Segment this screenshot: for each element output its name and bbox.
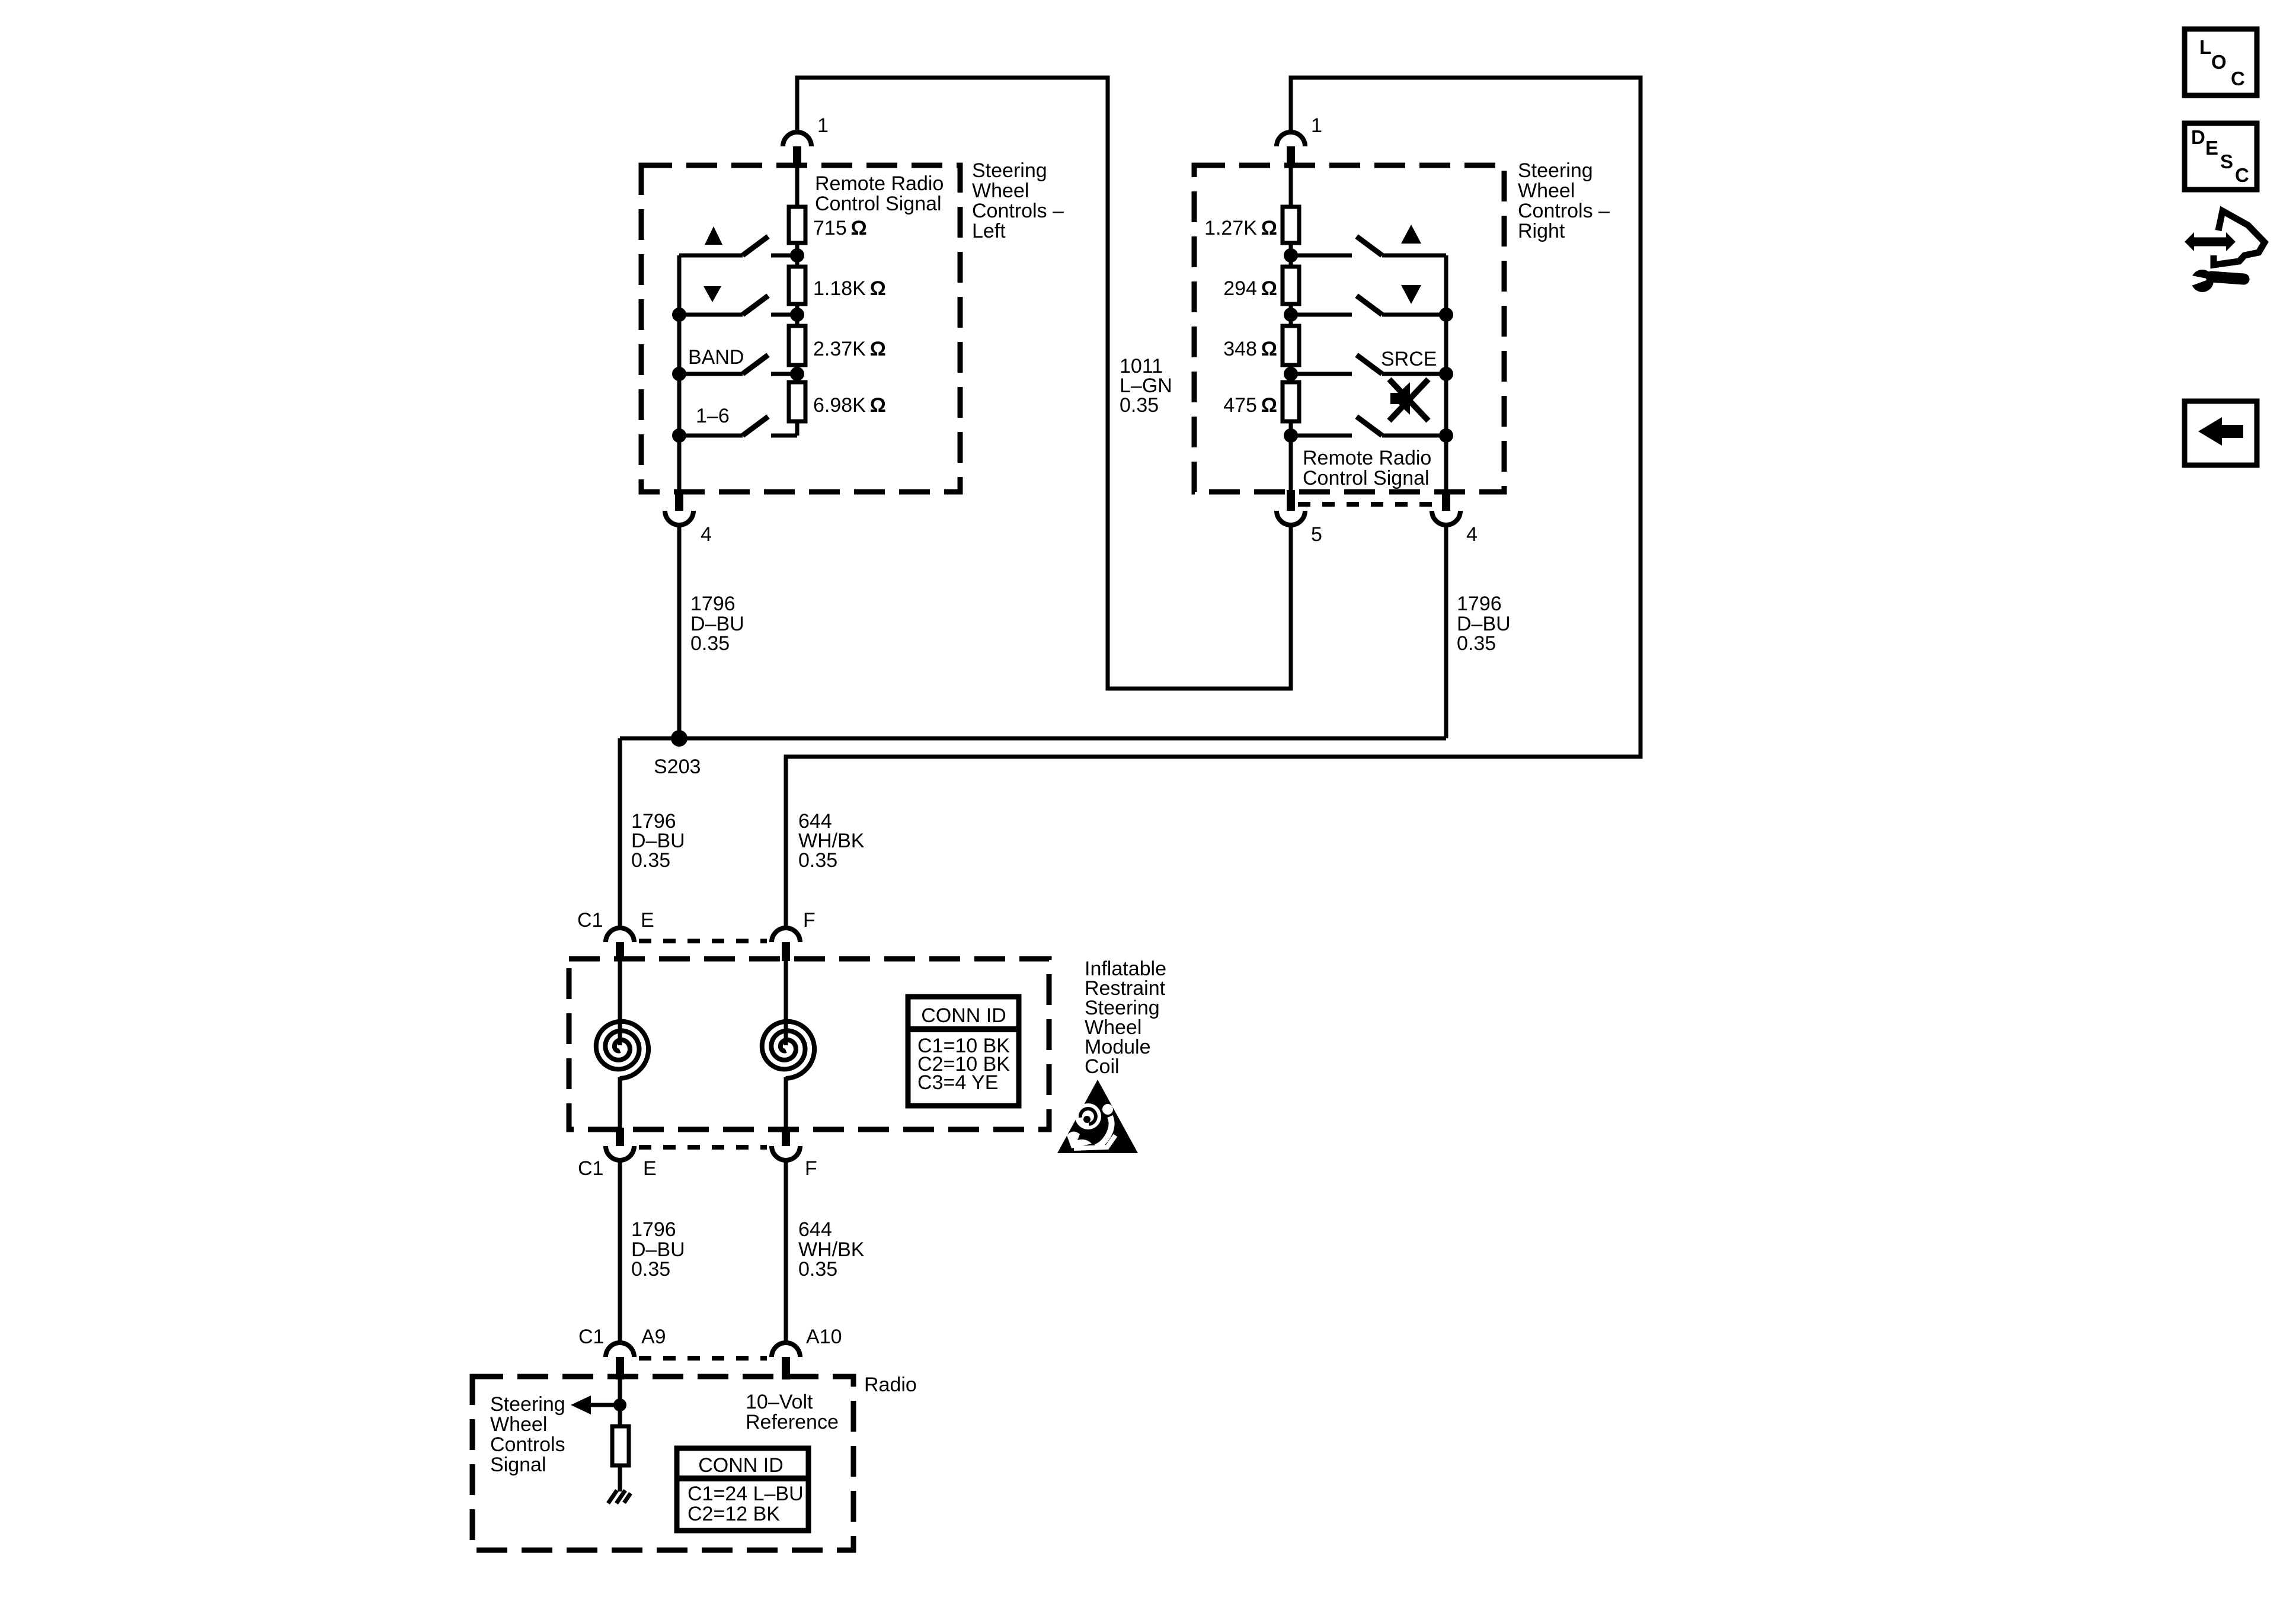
resistor 348 ohm [1283,326,1299,365]
svg-text:S203: S203 [654,756,701,778]
node: chain junction row2 [1284,308,1298,322]
coil spiral (right clockspring) [762,1022,814,1078]
connector pin 4 (right box bottom) [1442,490,1450,511]
switch label: mute speaker with X [1390,382,1410,415]
node: bus row2 [1439,308,1453,322]
label wire 644 WH/BK 0.35 (above coil F) [798,810,865,872]
svg-text:O: O [2211,51,2227,73]
svg-text:L: L [2199,36,2211,58]
icon: DESC button [2185,123,2257,190]
connector pin 1 (left box) [783,132,811,146]
wire: out of right coil [784,1077,788,1128]
node: bus row2 [672,308,686,322]
svg-text:1.27K Ω: 1.27K Ω [1204,217,1277,239]
svg-text:Reference: Reference [746,1411,839,1433]
label: 10-Volt Reference [746,1391,839,1433]
svg-text:715 Ω: 715 Ω [813,217,867,239]
wire [795,304,800,326]
wire: pin1 stub to resistor chain [1289,168,1293,207]
wire: out of left coil [618,1077,622,1128]
wire: left pin1 up, top rail, down at x1869, lower rail to right pin5 drop [797,78,1291,689]
node: bus row4 [672,428,686,443]
switch SW4 1-6 [679,417,797,436]
connector C1 pin F (coil top) [772,928,800,942]
wire: pin1 stub to resistor chain [795,168,800,207]
svg-text:Steering: Steering [1518,159,1593,182]
connector pin 1 (right box) [1277,132,1305,146]
node: bus row4 [1439,428,1453,443]
switch label: up arrow [1401,225,1421,244]
svg-text:CONN ID: CONN ID [698,1454,784,1477]
switch label: up arrow [705,226,722,245]
svg-text:475 Ω: 475 Ω [1223,394,1277,417]
resistor 715 ohm [789,207,805,243]
svg-text:1796: 1796 [631,1218,676,1241]
connector C1 pin E (coil top) [606,928,634,942]
connector C1 pin F (coil bottom) [782,1128,790,1146]
svg-text:Controls: Controls [490,1433,565,1456]
svg-text:Controls –: Controls – [1518,200,1610,222]
wire: signal arrow line [591,1403,620,1407]
node: junction at A9 lead [613,1398,626,1411]
svg-text:644: 644 [798,1218,832,1241]
svg-text:1: 1 [1311,114,1322,137]
CONN ID table (radio) [677,1448,808,1531]
node: chain junction row4 [1284,428,1298,443]
svg-text:C1: C1 [577,909,603,932]
component box: coil module (dashed) [569,959,1049,1129]
svg-text:Left: Left [972,220,1006,242]
wire: chain continues to pin5 [1289,436,1293,490]
connector pin 4 (left box bottom) [675,490,683,511]
connector pin 5 (right box bottom) [1287,490,1295,511]
wire [795,365,800,382]
resistor 2.37K ohm [789,326,805,365]
svg-text:C1: C1 [578,1157,603,1180]
node: chain junction row1 [1284,248,1298,263]
wire: chain bottom elbow [1289,421,1293,436]
svg-text:A10: A10 [806,1326,842,1348]
svg-text:294 Ω: 294 Ω [1223,277,1277,300]
wire: right pin4 down to splice rail [1444,525,1448,738]
wire: S203 splice rail [620,737,1446,741]
switch SW4 mute [1291,417,1446,436]
node: chain junction row2 [790,308,804,322]
svg-text:SRCE: SRCE [1381,348,1437,370]
svg-text:Wheel: Wheel [490,1413,547,1436]
wire: dotted tie A9-A10 [639,1356,767,1361]
resistor 475 ohm [1283,382,1299,421]
node: bus row3 [1439,367,1453,381]
node: chain junction row1 [790,248,804,263]
wire: switch bus [677,255,682,490]
svg-text:S: S [2220,151,2233,172]
svg-text:1.18K Ω: 1.18K Ω [813,277,886,300]
ground (chassis) [608,1490,631,1503]
svg-text:Control Signal: Control Signal [1303,467,1430,489]
svg-text:4: 4 [701,523,712,546]
switch SW1 up [1291,236,1446,255]
svg-text:F: F [803,909,816,932]
svg-text:Radio: Radio [864,1374,917,1396]
node: bus row3 [672,367,686,381]
svg-text:Steering: Steering [972,159,1047,182]
switch SW2 down [1291,296,1446,315]
svg-text:Wheel: Wheel [972,180,1029,202]
wire: dotted connector tie pins 5-4 [1298,502,1439,507]
svg-text:C1=24 L–BU: C1=24 L–BU [687,1483,804,1505]
svg-text:0.35: 0.35 [631,849,670,872]
svg-text:BAND: BAND [688,346,744,369]
svg-text:5: 5 [1311,523,1322,546]
wire: coil F down to radio A10 [784,1160,788,1344]
resistor 294 ohm [1283,267,1299,304]
component box: Radio (dashed) [472,1377,853,1550]
svg-text:0.35: 0.35 [798,849,837,872]
svg-text:E: E [643,1157,657,1180]
label wire 1796 D-BU 0.35 (left pin4) [690,593,744,655]
wire: coil E down to radio A9 [618,1160,622,1344]
switch SW3 BAND [679,355,797,374]
svg-text:1: 1 [817,114,829,137]
resistor 6.98K ohm [789,382,805,421]
svg-text:10–Volt: 10–Volt [746,1391,813,1413]
svg-text:E: E [2205,137,2218,159]
wire [795,243,800,267]
label wire 1011 L-GN 0.35 [1120,355,1172,417]
svg-text:CONN ID: CONN ID [921,1004,1006,1027]
svg-text:1–6: 1–6 [696,405,730,427]
switch SW1 up [679,236,797,255]
label wire 1796 D-BU 0.35 (below coil E) [631,1218,685,1281]
resistor 1.18K ohm [789,267,805,304]
wire: left pin4 down to S203 [677,525,682,738]
svg-text:0.35: 0.35 [1120,394,1159,417]
wire: into right coil [784,961,788,1045]
icon: harness jump (double arrow, outline, wrench) [2185,211,2265,292]
switch SW3 SRCE [1291,355,1446,374]
svg-text:C3=4 YE: C3=4 YE [917,1071,998,1094]
wire: chain bottom elbow [795,421,800,436]
label: Steering Wheel Controls Signal [490,1393,565,1476]
switch label: down arrow [1401,285,1421,304]
svg-text:F: F [805,1157,817,1180]
wire: right pin1 up, top rail, down at x2768, rail to coil F drop [786,78,1641,927]
resistor (radio pull-up) [612,1426,629,1465]
wire: into left coil [618,961,622,1045]
component box: Steering Wheel Controls - Left (dashed) [641,165,960,492]
svg-text:D: D [2191,126,2205,148]
svg-text:Remote Radio: Remote Radio [815,172,944,195]
label: Remote Radio Control Signal (right box) [1303,447,1431,489]
svg-text:2.37K Ω: 2.37K Ω [813,338,886,360]
wire: resistor to ground [618,1465,622,1491]
svg-text:Right: Right [1518,220,1565,242]
component box: Steering Wheel Controls - Right (dashed) [1194,165,1504,492]
coil spiral (left clockspring) [596,1022,648,1078]
switch label: down arrow [703,286,721,302]
svg-text:Controls –: Controls – [972,200,1064,222]
wire: splice rail elbow down to coil E [618,738,622,927]
svg-text:C: C [2235,164,2249,186]
switch SW2 down [679,296,797,315]
label wire 1796 D-BU 0.35 (right pin4) [1457,593,1511,655]
signal arrowhead [571,1395,591,1414]
resistor 1.27K ohm [1283,207,1299,243]
svg-text:Control Signal: Control Signal [815,193,942,215]
svg-text:0.35: 0.35 [1457,632,1496,655]
wire [1289,365,1293,382]
svg-text:1796: 1796 [690,593,736,615]
label: Remote Radio Control Signal (left box) [815,172,944,215]
connector C1 pin A9 (radio) [606,1343,634,1357]
svg-text:Coil: Coil [1085,1055,1120,1078]
icon: LOC button [2185,29,2257,95]
svg-text:A9: A9 [641,1326,666,1348]
airbag caution triangle icon [1057,1080,1138,1153]
svg-text:Wheel: Wheel [1518,180,1575,202]
svg-text:C: C [2231,68,2245,89]
wire: A9 into radio [618,1379,622,1405]
wire: dotted tie E-F (coil bottom) [639,1145,767,1150]
svg-text:4: 4 [1466,523,1478,546]
svg-text:348 Ω: 348 Ω [1223,338,1277,360]
label wire 644 WH/BK 0.35 (below coil F) [798,1218,865,1281]
svg-text:0.35: 0.35 [631,1258,670,1281]
connector C1 pin E (coil bottom) [616,1128,624,1146]
svg-text:6.98K Ω: 6.98K Ω [813,394,886,417]
svg-text:Steering: Steering [490,1393,565,1416]
node S203 [671,730,687,747]
svg-text:Remote Radio: Remote Radio [1303,447,1431,469]
wire [1289,243,1293,267]
svg-text:1796: 1796 [1457,593,1502,615]
node: chain junction row3 [1284,367,1298,381]
wire: dotted tie E-F (coil top) [639,939,767,943]
icon: back arrow button [2185,401,2257,465]
svg-text:0.35: 0.35 [798,1258,837,1281]
svg-text:C2=12 BK: C2=12 BK [687,1503,780,1525]
label wire 1796 D-BU 0.35 (above coil E) [631,810,685,872]
svg-text:0.35: 0.35 [690,632,730,655]
svg-text:E: E [641,909,654,932]
CONN ID table (coil) [908,997,1019,1106]
wire: switch bus [1444,255,1448,490]
wire [1289,304,1293,326]
wire: junction to resistor [618,1405,622,1426]
node: chain junction row3 [790,367,804,381]
svg-text:C1: C1 [578,1326,604,1348]
connector C1 pin A10 (radio) [772,1343,800,1357]
svg-text:Signal: Signal [490,1454,546,1476]
